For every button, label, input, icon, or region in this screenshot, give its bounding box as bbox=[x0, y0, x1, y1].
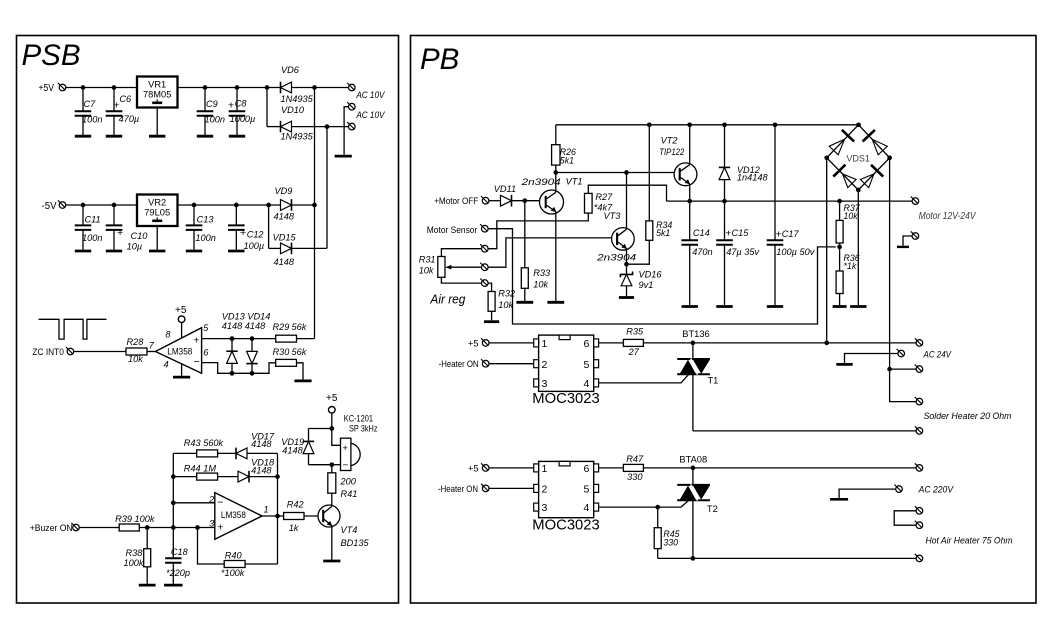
node junction C12 bbox=[234, 203, 239, 208]
wire R41 to VT4 collector bbox=[331, 493, 333, 506]
wire R27 top to motor rail bbox=[588, 185, 666, 201]
terminal AC10V-1 bbox=[347, 83, 355, 91]
terminal AC220V-1 bbox=[915, 463, 923, 471]
wire motor minus to ground bbox=[903, 236, 912, 246]
svg-text:4: 4 bbox=[584, 378, 590, 390]
wire +5V rail right bbox=[178, 87, 281, 89]
resistor R28 bbox=[126, 348, 147, 355]
wire R47 to AC220V terminal bbox=[643, 467, 916, 469]
svg-text:VDS1: VDS1 bbox=[846, 154, 870, 165]
wire T1 MT2 stem bbox=[692, 343, 694, 359]
terminal hot air 2 bbox=[915, 521, 923, 529]
wire R34 top bbox=[648, 125, 650, 221]
wire pin2 to opamp bbox=[173, 502, 215, 504]
svg-text:PB: PB bbox=[420, 43, 459, 76]
regulator VR2 79L05 bbox=[137, 195, 178, 227]
node junction T2 top bbox=[691, 466, 696, 471]
wire VD9 to vertical A bbox=[292, 204, 315, 206]
wire VD10 to terminal bbox=[292, 126, 349, 128]
svg-text:LM358: LM358 bbox=[167, 346, 192, 357]
ground C18 bbox=[164, 584, 182, 587]
node junction C9 bbox=[203, 85, 208, 90]
pin numbers U3 bbox=[542, 463, 590, 514]
svg-text:C9: C9 bbox=[206, 99, 218, 109]
wire -5V rail right bbox=[178, 204, 281, 206]
svg-text:330: 330 bbox=[663, 537, 678, 547]
svg-text:R38: R38 bbox=[126, 548, 144, 558]
resistor R40 bbox=[224, 561, 245, 568]
node junction C8 bbox=[235, 85, 240, 90]
ground VD16 bbox=[619, 296, 634, 299]
node junction VD12 bottom / C15 bbox=[722, 199, 727, 204]
svg-text:+5: +5 bbox=[468, 338, 479, 349]
svg-text:VR2: VR2 bbox=[148, 197, 166, 207]
node junction C10 bbox=[112, 203, 117, 208]
node junction C6 bbox=[112, 85, 117, 90]
svg-text:C12: C12 bbox=[247, 230, 264, 240]
svg-text:100µ 50v: 100µ 50v bbox=[776, 247, 815, 257]
diode VD9 4148 bbox=[281, 200, 292, 211]
svg-text:AC 24V: AC 24V bbox=[923, 350, 953, 361]
PB board frame bbox=[411, 36, 1037, 604]
wire buzer to R39 bbox=[79, 527, 119, 529]
wire output pin1 bbox=[262, 515, 284, 517]
svg-text:1000µ: 1000µ bbox=[230, 114, 256, 124]
wire R44 row left bbox=[173, 476, 196, 478]
svg-text:R31: R31 bbox=[419, 255, 436, 265]
wire VR2 ground stem bbox=[156, 226, 158, 250]
svg-text:1: 1 bbox=[264, 504, 269, 514]
power tap +5 opamp A bbox=[178, 316, 185, 323]
ground C12 bbox=[228, 250, 244, 253]
wire AC220V-2 to ground bbox=[839, 489, 896, 498]
svg-text:100k: 100k bbox=[124, 558, 144, 568]
svg-text:AC 10V: AC 10V bbox=[356, 89, 386, 100]
capacitor C7 bbox=[75, 88, 92, 136]
ground VR1 bbox=[149, 135, 165, 138]
svg-text:SP 3kHz: SP 3kHz bbox=[349, 424, 378, 434]
wire bridge minus to ground bbox=[857, 190, 859, 305]
svg-text:7: 7 bbox=[149, 340, 155, 350]
diode VD17 4148 bbox=[236, 448, 247, 459]
wire +5 to U2 pin1 bbox=[489, 342, 534, 344]
wire VD15 to vertical B bbox=[292, 247, 328, 249]
svg-text:10k: 10k bbox=[533, 279, 548, 289]
node junction C17 top bbox=[773, 122, 778, 127]
node junction C11 bbox=[81, 203, 86, 208]
wire R40 to vertical bbox=[245, 563, 277, 565]
wire pot bottom to R32 bbox=[488, 283, 492, 291]
ground C13 bbox=[186, 250, 202, 253]
node junction T1 top bbox=[691, 341, 696, 346]
wire VD15 row left bbox=[269, 247, 281, 249]
wire VD15 branch down bbox=[268, 205, 270, 248]
resistor R34 bbox=[646, 221, 653, 240]
svg-text:+Motor OFF: +Motor OFF bbox=[434, 195, 478, 206]
wire motor sensor to R37/R36 junction bbox=[488, 229, 836, 324]
svg-text:+: + bbox=[217, 522, 223, 534]
wire pin5 rail bbox=[202, 338, 276, 340]
node junction R34 top bbox=[647, 122, 652, 127]
node junction VT2 emitter / C14 bbox=[687, 199, 692, 204]
ground R30 bbox=[294, 379, 311, 382]
wire R40 row bbox=[198, 528, 225, 565]
svg-text:5: 5 bbox=[584, 484, 590, 496]
resistor R29 bbox=[276, 335, 297, 342]
svg-text:VD6: VD6 bbox=[281, 65, 300, 75]
transistor VT4 BD135 bbox=[318, 504, 340, 560]
wire ZC to R28 bbox=[74, 351, 126, 353]
wire VD19 top branch bbox=[309, 428, 332, 430]
svg-text:VD11: VD11 bbox=[494, 184, 516, 194]
svg-text:2: 2 bbox=[208, 495, 214, 505]
capacitor C9 bbox=[197, 88, 214, 136]
resistor R27 bbox=[585, 193, 593, 213]
svg-text:+: + bbox=[240, 227, 246, 239]
wire U2 pin4 to T1 gate bbox=[599, 375, 689, 383]
ground motor minus bbox=[897, 246, 909, 248]
svg-text:R30: R30 bbox=[273, 347, 291, 357]
ground C10 bbox=[106, 250, 122, 253]
node bridge right vertex bbox=[887, 155, 892, 160]
wire speaker plus bbox=[332, 429, 341, 446]
resistor R26 bbox=[552, 125, 560, 173]
resistor R35 bbox=[623, 339, 643, 346]
svg-text:R47: R47 bbox=[626, 454, 644, 464]
svg-text:+Buzer ON: +Buzer ON bbox=[30, 523, 73, 534]
terminal Motor Sensor bbox=[480, 224, 488, 232]
svg-text:R42: R42 bbox=[287, 500, 304, 510]
svg-text:5k1: 5k1 bbox=[560, 155, 574, 165]
svg-text:VT1: VT1 bbox=[566, 177, 583, 187]
svg-text:3: 3 bbox=[542, 378, 548, 390]
wire R32 to ground bbox=[491, 311, 493, 320]
svg-text:T1: T1 bbox=[708, 376, 719, 386]
transistor VT2 TIP122 bbox=[674, 125, 697, 201]
svg-text:-Heater ON: -Heater ON bbox=[438, 483, 478, 494]
svg-text:KC-1201: KC-1201 bbox=[344, 413, 373, 423]
ground VR2 bbox=[149, 250, 165, 253]
PSB board frame bbox=[17, 36, 399, 604]
ground R33 bbox=[516, 301, 533, 304]
terminal -Heater ON 2 bbox=[481, 484, 489, 492]
terminal AC24V-3 bbox=[915, 365, 923, 373]
terminal AC24V-2 bbox=[897, 349, 905, 357]
capacitor C18 bbox=[165, 528, 181, 584]
terminal pot bottom bbox=[480, 279, 488, 287]
svg-text:VD15: VD15 bbox=[273, 232, 297, 242]
svg-text:100n: 100n bbox=[82, 115, 102, 125]
svg-text:−: − bbox=[217, 496, 223, 508]
svg-text:*100k: *100k bbox=[221, 568, 245, 578]
node junction VD19 bottom bbox=[329, 462, 334, 467]
svg-text:R41: R41 bbox=[341, 489, 358, 499]
svg-text:C6: C6 bbox=[119, 94, 132, 104]
wire opamp A ground stem bbox=[181, 364, 183, 376]
wire +5 to opamp A bbox=[181, 323, 183, 339]
wire +V top rail bbox=[556, 124, 859, 126]
resistor R43 bbox=[197, 450, 218, 457]
node junction VD6/VD10 bbox=[265, 85, 270, 90]
svg-text:−: − bbox=[343, 460, 349, 471]
svg-text:10µ: 10µ bbox=[127, 241, 143, 251]
svg-text:VD10: VD10 bbox=[281, 105, 305, 115]
wire T1 to heater terminal bbox=[693, 430, 916, 432]
node bridge bottom vertex bbox=[856, 188, 861, 193]
svg-text:2n3904: 2n3904 bbox=[520, 177, 560, 187]
svg-text:8: 8 bbox=[165, 330, 171, 340]
ground bridge minus bbox=[850, 305, 866, 308]
svg-text:VT4: VT4 bbox=[341, 525, 358, 535]
capacitor C10 polar bbox=[106, 205, 123, 250]
power tap +5 buzzer bbox=[329, 407, 336, 414]
node junction T2 bottom bbox=[691, 556, 696, 561]
svg-text:C7: C7 bbox=[84, 99, 97, 109]
svg-text:VT2: VT2 bbox=[661, 135, 678, 145]
svg-text:C11: C11 bbox=[85, 215, 101, 225]
svg-text:C8: C8 bbox=[235, 98, 248, 108]
node junction C18 vertical bbox=[171, 525, 176, 530]
terminal Motor minus bbox=[911, 231, 919, 239]
wire feedback vertical left bbox=[172, 453, 174, 527]
resistor R47 bbox=[623, 464, 643, 471]
wire pot bottom to R31 bbox=[441, 277, 481, 283]
node junction VD13 bottom bbox=[230, 371, 235, 376]
svg-text:9v1: 9v1 bbox=[639, 280, 654, 290]
node junction VT3 emitter / VD16 bbox=[624, 262, 629, 267]
resistor R39 bbox=[119, 524, 139, 531]
terminal AC220V-2 bbox=[894, 485, 902, 493]
diode VD12 1n4148 bbox=[719, 125, 730, 201]
svg-text:Motor Sensor: Motor Sensor bbox=[427, 224, 478, 235]
wire -5V rail left bbox=[66, 204, 137, 206]
svg-text:4: 4 bbox=[164, 360, 169, 370]
wire VD10 branch down bbox=[266, 88, 268, 127]
svg-text:+5V: +5V bbox=[39, 83, 55, 94]
terminal solder heater 1 bbox=[915, 397, 923, 405]
diode VD14 4148 bbox=[246, 339, 257, 374]
wire AC left leg (bridge left) bbox=[826, 158, 828, 343]
svg-text:R43 560k: R43 560k bbox=[184, 438, 224, 448]
resistor R38 bbox=[144, 528, 151, 584]
diode VD18 4148 bbox=[238, 471, 249, 482]
resistor R44 bbox=[197, 473, 218, 480]
node junction VT3 collector bbox=[624, 170, 629, 175]
svg-text:330: 330 bbox=[627, 472, 643, 482]
regulator VR1 78M05 bbox=[137, 77, 178, 108]
terminal AC10V-3 bbox=[347, 122, 355, 130]
node junction vertical B top bbox=[325, 124, 330, 129]
svg-text:VD9: VD9 bbox=[275, 186, 293, 196]
capacitor C12 polar bbox=[228, 205, 245, 250]
wire +5 stem buzzer bbox=[331, 413, 333, 428]
ground R38 bbox=[139, 584, 156, 587]
terminal -5V bbox=[58, 200, 66, 208]
terminal hot air 3 bbox=[915, 554, 923, 562]
wire R44 to VD18 bbox=[218, 476, 238, 478]
svg-text:-Heater ON: -Heater ON bbox=[439, 358, 479, 369]
ground R36 bbox=[833, 305, 847, 308]
wire R36 to ground bbox=[839, 294, 841, 306]
node junction VT2 collector bbox=[687, 122, 692, 127]
waveform symbol zero-cross pulses bbox=[39, 319, 107, 339]
svg-text:Solder Heater 20 Ohm: Solder Heater 20 Ohm bbox=[924, 411, 1012, 422]
optocoupler U3 body bbox=[534, 461, 599, 517]
svg-text:AC 220V: AC 220V bbox=[918, 485, 955, 496]
svg-text:Air reg: Air reg bbox=[429, 291, 466, 306]
svg-text:1n4148: 1n4148 bbox=[737, 173, 769, 183]
wire heater on to U2 pin2 bbox=[489, 363, 534, 365]
diode VD6 1N4935 bbox=[281, 82, 292, 93]
ground VT1 emitter bbox=[547, 301, 564, 304]
terminal +5 heater1 bbox=[481, 338, 489, 346]
svg-text:3: 3 bbox=[542, 502, 548, 514]
pin numbers U2 bbox=[542, 338, 590, 390]
capacitor C8 polar bbox=[229, 88, 246, 136]
svg-text:2: 2 bbox=[542, 359, 548, 371]
node junction R44 right bbox=[275, 474, 280, 479]
node junction vertical A mid bbox=[312, 203, 317, 208]
node junction R37/R36 bbox=[837, 245, 842, 250]
svg-text:100n: 100n bbox=[82, 233, 102, 243]
svg-text:MOC3023: MOC3023 bbox=[532, 517, 599, 533]
resistor R32 bbox=[488, 292, 495, 312]
op-amp U1A LM358 bbox=[155, 328, 201, 374]
ground AC24V bbox=[836, 363, 852, 366]
node junction VD14 top bbox=[250, 336, 255, 341]
optocoupler U2 body bbox=[534, 335, 599, 391]
terminal pot top bbox=[480, 244, 488, 252]
wire AC24V-2 to ground bbox=[845, 354, 899, 364]
wire motor rail bbox=[667, 200, 913, 202]
svg-text:R27: R27 bbox=[595, 192, 613, 202]
capacitor C13 bbox=[186, 205, 203, 250]
wire pot top to R27 bottom bbox=[488, 213, 588, 249]
svg-text:79L05: 79L05 bbox=[144, 207, 170, 217]
svg-text:−: − bbox=[194, 356, 200, 368]
svg-text:VD13 VD14: VD13 VD14 bbox=[222, 312, 271, 322]
svg-text:R33: R33 bbox=[533, 268, 551, 278]
svg-text:100µ: 100µ bbox=[244, 241, 265, 251]
capacitor C17 polar bbox=[767, 125, 784, 305]
wire T2 MT1 down bbox=[692, 500, 694, 558]
terminal AC10V-2 bbox=[347, 102, 355, 110]
wire VR1 ground stem bbox=[156, 108, 158, 136]
svg-text:+: + bbox=[725, 227, 731, 239]
svg-text:4148: 4148 bbox=[274, 211, 295, 221]
svg-text:R28: R28 bbox=[127, 337, 145, 347]
resistor R30 bbox=[276, 359, 297, 366]
svg-text:+5: +5 bbox=[175, 305, 187, 316]
resistor R33 bbox=[521, 201, 528, 301]
triac T2 bbox=[677, 485, 710, 501]
diode VD11 bbox=[501, 195, 512, 206]
node junction VT1 collector / VT2 base bbox=[553, 170, 558, 175]
svg-text:Motor 12V-24V: Motor 12V-24V bbox=[919, 211, 977, 222]
wire vertical B (VD10/VD15 to corner) bbox=[326, 127, 328, 249]
svg-text:4148: 4148 bbox=[274, 257, 295, 267]
svg-text:+: + bbox=[117, 227, 123, 239]
wire R34 bottom to VD16 node bbox=[627, 240, 650, 264]
svg-text:C18: C18 bbox=[171, 547, 189, 557]
svg-text:VT3: VT3 bbox=[604, 211, 622, 221]
svg-text:1: 1 bbox=[542, 338, 548, 350]
wire feedback vertical right bbox=[277, 453, 279, 564]
svg-text:*1k: *1k bbox=[844, 261, 857, 271]
wire U3 pin6 to R47 bbox=[599, 467, 624, 469]
resistor R37 divider bbox=[836, 201, 843, 243]
svg-text:MOC3023: MOC3023 bbox=[532, 391, 599, 407]
node bridge left vertex bbox=[824, 155, 829, 160]
svg-text:+: + bbox=[193, 334, 199, 346]
svg-text:T2: T2 bbox=[707, 504, 718, 514]
svg-text:6: 6 bbox=[584, 338, 590, 350]
svg-text:10k: 10k bbox=[419, 266, 434, 276]
wire heater on to U3 pin2 bbox=[489, 487, 534, 489]
svg-text:PSB: PSB bbox=[22, 39, 81, 72]
svg-text:56k: 56k bbox=[292, 322, 307, 332]
diode VD15 4148 bbox=[281, 243, 292, 254]
ground R32 bbox=[484, 320, 499, 323]
wire T2 MT2 stem bbox=[692, 468, 694, 485]
wire wiper arm bbox=[450, 266, 482, 268]
wire VD19 bottom branch bbox=[309, 464, 332, 466]
node junction C7 bbox=[81, 85, 86, 90]
svg-text:4148: 4148 bbox=[251, 439, 272, 449]
node junction VD19 top bbox=[329, 426, 334, 431]
svg-text:4148 4148: 4148 4148 bbox=[222, 321, 266, 331]
triac T1 bbox=[677, 359, 710, 375]
ground opamp A bbox=[173, 376, 190, 379]
svg-text:10k: 10k bbox=[498, 300, 513, 310]
svg-text:6: 6 bbox=[203, 348, 209, 358]
transistor VT1 2n3904 bbox=[540, 173, 564, 302]
svg-text:2n3904: 2n3904 bbox=[596, 253, 636, 263]
capacitor C15 polar bbox=[716, 201, 733, 305]
terminal ZC INT0 bbox=[66, 347, 74, 355]
wire VD17 to vertical bbox=[247, 452, 278, 454]
terminal solder heater 2 bbox=[915, 426, 923, 434]
node junction AC left leg bbox=[824, 341, 829, 346]
wire R29 to vertical A bbox=[297, 338, 315, 340]
svg-text:4148: 4148 bbox=[251, 465, 272, 475]
diode VD13 4148 bbox=[226, 339, 237, 374]
terminal +5 heater2 bbox=[481, 463, 489, 471]
wire R37 R36 junction bbox=[839, 243, 841, 271]
terminal -Heater ON 1 bbox=[481, 359, 489, 367]
svg-text:5k1: 5k1 bbox=[656, 228, 670, 238]
node junction output bbox=[275, 514, 280, 519]
svg-text:TIP122: TIP122 bbox=[659, 147, 684, 157]
wire R28 to op-amp bbox=[147, 351, 155, 353]
svg-text:R35: R35 bbox=[626, 327, 644, 337]
potentiometer R31 bbox=[438, 257, 445, 278]
svg-text:C15: C15 bbox=[732, 228, 750, 238]
wire wiper to VT3 base bbox=[488, 238, 617, 267]
node junction VD13 top bbox=[230, 336, 235, 341]
svg-text:1N4935: 1N4935 bbox=[281, 132, 314, 142]
svg-text:+5: +5 bbox=[326, 393, 338, 404]
wire R39 to pin3 bbox=[139, 527, 215, 529]
wire R42 to VT4 base bbox=[304, 515, 323, 517]
svg-text:1k: 1k bbox=[289, 523, 299, 533]
node junction VD14 bottom bbox=[250, 371, 255, 376]
svg-text:3: 3 bbox=[209, 519, 215, 529]
svg-text:VR1: VR1 bbox=[148, 79, 166, 89]
svg-text:78M05: 78M05 bbox=[143, 89, 171, 99]
wire pot top to R31 bbox=[441, 249, 481, 257]
wire +5V rail left bbox=[66, 87, 137, 89]
